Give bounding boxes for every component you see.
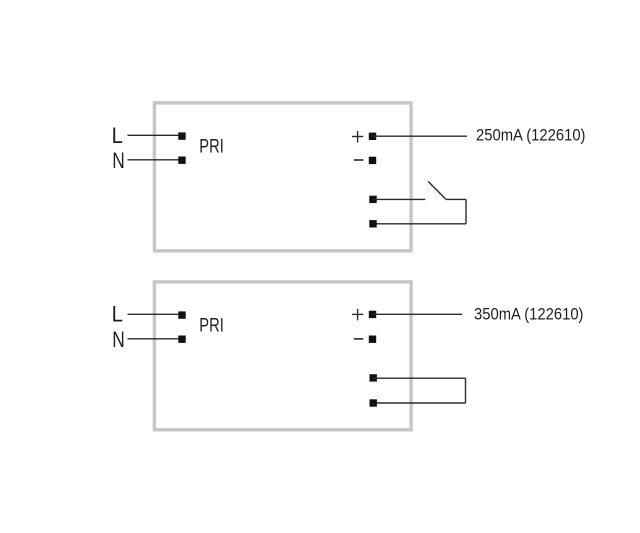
svg-text:PRI: PRI xyxy=(199,137,224,158)
wire jumper vertical xyxy=(465,378,467,403)
terminal jumper upper (U2) xyxy=(370,374,377,381)
terminal N (U2) xyxy=(178,336,185,343)
wire switch contact xyxy=(446,198,466,200)
wire + output to label xyxy=(372,135,467,137)
label − (U1 output minus) xyxy=(354,159,364,161)
terminal − (U2) xyxy=(369,336,376,343)
svg-text:350mA (122610): 350mA (122610) xyxy=(474,306,584,324)
terminal − (U1) xyxy=(369,157,376,164)
terminal N (U1) xyxy=(178,157,185,164)
wire N input (U2) xyxy=(128,338,183,340)
svg-text:N: N xyxy=(112,148,125,173)
wire switch upper xyxy=(373,198,425,200)
svg-text:L: L xyxy=(112,301,123,326)
LED driver U2 outline xyxy=(154,282,411,430)
wire L input xyxy=(128,134,183,136)
terminal L (U2) xyxy=(178,311,185,318)
svg-text:PRI: PRI xyxy=(199,316,224,337)
terminal L (U1) xyxy=(178,132,185,139)
terminal switch upper (U1) xyxy=(369,196,376,203)
wire + output to label (U2) xyxy=(372,313,462,315)
wire jumper upper xyxy=(373,377,466,379)
svg-text:L: L xyxy=(112,123,123,148)
wire N input xyxy=(128,159,183,161)
svg-text:250mA (122610): 250mA (122610) xyxy=(476,126,586,144)
wire switch lower xyxy=(373,223,466,225)
terminal switch lower (U1) xyxy=(369,220,376,227)
terminal + (U2) xyxy=(369,311,376,318)
wire L input (U2) xyxy=(128,313,183,315)
LED driver U1 outline xyxy=(154,103,411,251)
terminal + (U1) xyxy=(369,133,376,140)
svg-text:N: N xyxy=(112,327,125,352)
terminal jumper lower (U2) xyxy=(370,399,377,406)
label + (U1 output plus) xyxy=(352,131,363,143)
label + (U2 output plus) xyxy=(352,309,363,321)
switch S1 blade (open) xyxy=(428,181,446,199)
wire vertical return (switch loop) xyxy=(465,199,467,223)
wire jumper lower xyxy=(373,402,466,404)
label − (U2 output minus) xyxy=(354,338,364,340)
